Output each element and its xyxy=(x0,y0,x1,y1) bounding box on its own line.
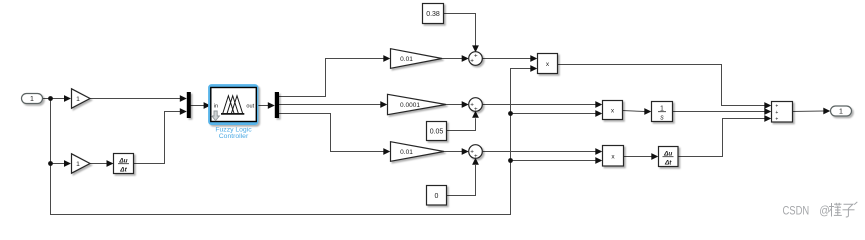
arrow into product P2 input 1 xyxy=(595,101,602,108)
svg-text:+: + xyxy=(775,110,778,116)
svg-text:1: 1 xyxy=(76,161,80,168)
svg-text:s: s xyxy=(660,115,664,122)
wire mux to fuzzy controller xyxy=(191,105,205,107)
wire demux out3 down to gain 0.01 bottom xyxy=(279,114,384,152)
wire gain K1 to mux xyxy=(90,98,181,100)
arrow into gain 0.01 top xyxy=(383,55,390,62)
constant 0 xyxy=(427,186,447,206)
constant 0.05 xyxy=(427,122,447,141)
arrow into demux xyxy=(268,102,275,109)
arrow into mux input 2 xyxy=(180,108,187,115)
arrow into adder input 1 xyxy=(764,102,771,109)
arrow into adder input 3 xyxy=(764,115,771,122)
arrow into gain K2 xyxy=(64,160,71,167)
arrow into du/dt xyxy=(107,160,114,167)
svg-text:0.38: 0.38 xyxy=(426,11,440,18)
svg-text:+: + xyxy=(775,104,778,110)
ARROWHEADS xyxy=(64,45,830,166)
demux xyxy=(275,92,279,118)
gain 0.01 bottom xyxy=(391,142,445,162)
arrow into sum S3 bottom xyxy=(472,158,479,165)
adder (3-input sum rectangle) xyxy=(772,102,793,123)
svg-text:0.0001: 0.0001 xyxy=(400,102,420,109)
wire constant 0 to sum S3 bottom xyxy=(447,165,476,196)
arrow into gain K1 xyxy=(64,95,71,102)
watermark CSDN xyxy=(783,204,831,218)
gain K2 (value 1) xyxy=(72,154,91,173)
derivative block du/dt 1 xyxy=(114,154,134,174)
wire product P3 to du/dt 2 xyxy=(624,156,652,158)
integrator 1/s xyxy=(652,102,673,122)
sum S3 xyxy=(469,145,483,161)
svg-text:0: 0 xyxy=(435,193,439,200)
wire In1 to branch and gain K1 xyxy=(43,98,65,100)
fuzzy logic controller block xyxy=(210,86,257,124)
svg-text:in: in xyxy=(214,103,218,109)
wire gain 0.01 bottom to sum S3 xyxy=(444,151,463,153)
arrow into mux input 1 xyxy=(180,95,187,102)
arrow into output port Out1 xyxy=(823,108,830,115)
svg-text:Δt: Δt xyxy=(119,166,127,173)
arrow into sum S2 left xyxy=(462,101,469,108)
svg-text:out: out xyxy=(246,103,254,109)
svg-text:0.01: 0.01 xyxy=(400,56,413,63)
wire sum S3 to product P3 xyxy=(483,151,596,153)
wire branch to gain K2 xyxy=(51,163,65,165)
arrow into product P3 input 2 xyxy=(595,157,602,164)
watermark hanzi zi xyxy=(843,202,858,217)
arrow into sum S3 left xyxy=(462,148,469,155)
constant 0.38 xyxy=(423,4,444,24)
wire gain K2 to du/dt xyxy=(90,163,107,165)
svg-text:+: + xyxy=(474,52,478,59)
arrow into adder input 2 xyxy=(764,108,771,115)
svg-text:+: + xyxy=(474,106,478,113)
arrow into product P3 input 1 xyxy=(595,148,602,155)
svg-text:Δt: Δt xyxy=(664,159,672,166)
arrow into sum S1 left xyxy=(462,55,469,62)
mux xyxy=(187,92,191,118)
wire product P1 to adder input 1 xyxy=(558,65,765,106)
svg-text:+: + xyxy=(474,153,478,160)
svg-text:0.01: 0.01 xyxy=(400,149,413,156)
arrow into sum S1 top xyxy=(472,45,479,52)
wire fuzzy controller to demux xyxy=(256,105,269,107)
wire sum S2 to product P2 xyxy=(482,104,596,106)
JUNCTION DOTS xyxy=(48,96,513,166)
svg-text:1: 1 xyxy=(30,96,34,103)
svg-text:@: @ xyxy=(819,205,830,218)
sum S1 xyxy=(469,52,483,66)
fuzzy controller label xyxy=(215,127,252,140)
arrow into gain 0.0001 xyxy=(380,101,387,108)
wire integrator to adder input 2 xyxy=(673,111,765,113)
arrow into product P1 input 2 xyxy=(530,65,537,72)
junction on vertical feed to P2 xyxy=(508,111,513,116)
svg-text:Controller: Controller xyxy=(219,133,249,140)
arrow into product P2 input 2 xyxy=(595,110,602,117)
output port Out1 xyxy=(831,106,852,116)
wire demux out1 up to gain 0.01 top xyxy=(279,59,384,97)
wire constant 0.05 to sum S2 bottom xyxy=(447,118,476,130)
svg-text:1: 1 xyxy=(76,96,80,103)
wire gain 0.01 top to sum S1 xyxy=(442,58,462,60)
svg-text:+: + xyxy=(775,116,778,122)
wire feedback down and along bottom xyxy=(51,69,532,215)
sum S2 xyxy=(469,98,483,114)
svg-text:0.05: 0.05 xyxy=(430,129,444,136)
input port In1 xyxy=(22,94,43,104)
svg-text:1: 1 xyxy=(660,105,664,112)
gain 0.01 top xyxy=(391,49,443,69)
derivative block du/dt 2 xyxy=(659,147,679,167)
arrow into product P1 input 1 xyxy=(530,55,537,62)
product P3 xyxy=(603,146,624,167)
arrow into sum S2 bottom xyxy=(472,111,479,118)
wire adder to output port xyxy=(793,110,824,113)
wire vertical branch to product P3 xyxy=(511,160,597,162)
arrow into fuzzy controller xyxy=(204,102,211,109)
product P2 xyxy=(603,101,623,120)
junction at input branch top xyxy=(48,96,53,101)
wire branch down to lower branch xyxy=(50,99,52,164)
arrow into integrator xyxy=(644,108,651,115)
wire du/dt 2 to adder input 3 xyxy=(678,119,765,157)
arrow into du/dt 2 xyxy=(651,153,658,160)
watermark hanzi jin xyxy=(829,203,842,217)
wire product P2 to integrator xyxy=(623,111,645,112)
wire constant 0.38 to sum S1 top xyxy=(444,14,476,47)
wire du/dt to mux input 2 xyxy=(134,112,181,164)
wire vertical branch to product P2 xyxy=(511,113,597,115)
product P1 xyxy=(538,54,558,74)
gain 0.0001 xyxy=(388,94,447,114)
svg-text:CSDN: CSDN xyxy=(783,204,810,218)
svg-text:1: 1 xyxy=(839,109,843,116)
junction on vertical feed to P3 xyxy=(508,158,513,163)
junction at input branch lower xyxy=(48,161,53,166)
wire sum S1 to product P1 xyxy=(482,58,530,60)
wire gain 0.0001 to sum S2 xyxy=(446,104,463,106)
gain K1 (value 1) xyxy=(72,89,91,108)
arrow into gain 0.01 bottom xyxy=(383,148,390,155)
wire demux out2 to gain 0.0001 xyxy=(279,104,381,106)
